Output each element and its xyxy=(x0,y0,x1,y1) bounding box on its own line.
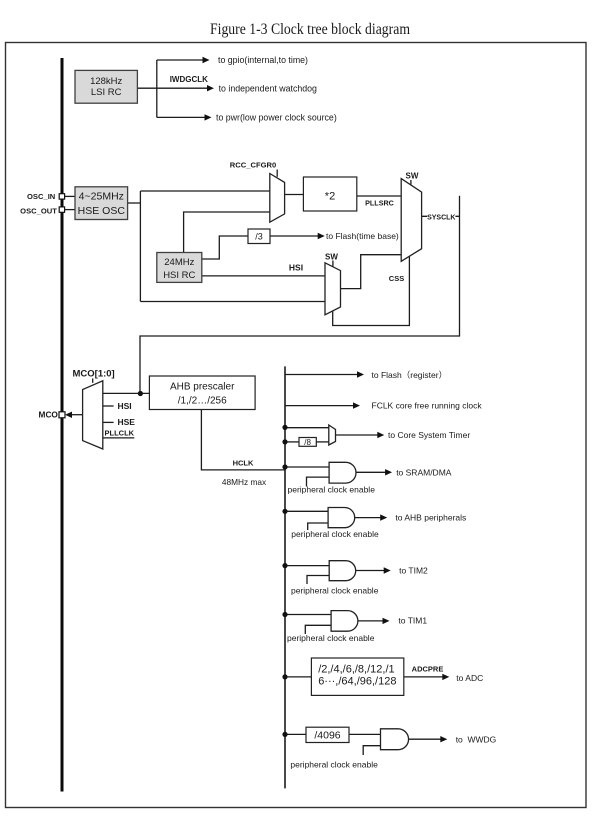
svg-text:6···,/64,/96,/128: 6···,/64,/96,/128 xyxy=(318,676,396,688)
svg-text:SW: SW xyxy=(325,252,338,261)
svg-text:to Flash（register）: to Flash（register） xyxy=(372,370,448,380)
svg-text:24MHz: 24MHz xyxy=(164,257,194,268)
svg-text:ADCPRE: ADCPRE xyxy=(412,665,444,674)
svg-text:to AHB peripherals: to AHB peripherals xyxy=(395,513,466,523)
svg-text:to gpio(internal,to time): to gpio(internal,to time) xyxy=(218,55,308,65)
svg-text:48MHz max: 48MHz max xyxy=(222,477,267,487)
svg-text:HSI: HSI xyxy=(118,401,132,411)
svg-text:CSS: CSS xyxy=(389,274,404,283)
svg-text:RCC_CFGR0: RCC_CFGR0 xyxy=(230,161,276,170)
svg-text:to pwr(low power clock source): to pwr(low power clock source) xyxy=(216,113,337,123)
svg-text:HCLK: HCLK xyxy=(233,459,254,468)
svg-text:PLLSRC: PLLSRC xyxy=(365,199,394,208)
svg-text:HSE: HSE xyxy=(118,417,136,427)
svg-text:to SRAM/DMA: to SRAM/DMA xyxy=(396,467,452,477)
svg-text:peripheral clock enable: peripheral clock enable xyxy=(288,485,376,495)
svg-text:OSC_IN: OSC_IN xyxy=(27,192,55,201)
svg-text:SYSCLK: SYSCLK xyxy=(427,215,455,222)
svg-text:peripheral clock enable: peripheral clock enable xyxy=(290,760,378,770)
svg-text:FCLK core free running clock: FCLK core free running clock xyxy=(372,401,483,411)
svg-text:4~25MHz: 4~25MHz xyxy=(79,191,124,203)
svg-text:/3: /3 xyxy=(255,231,263,241)
svg-text:peripheral clock enable: peripheral clock enable xyxy=(287,633,375,643)
svg-text:to Core System Timer: to Core System Timer xyxy=(388,430,470,440)
svg-text:MCO: MCO xyxy=(39,410,59,420)
svg-text:Figure 1-3 Clock tree block di: Figure 1-3 Clock tree block diagram xyxy=(210,21,410,38)
svg-text:/2,/4,/6,/8,/12,/1: /2,/4,/6,/8,/12,/1 xyxy=(318,664,394,676)
svg-text:HSI: HSI xyxy=(289,262,303,272)
svg-text:LSI RC: LSI RC xyxy=(91,87,122,98)
svg-text:PLLCLK: PLLCLK xyxy=(105,428,135,437)
svg-text:to TIM1: to TIM1 xyxy=(398,616,427,626)
svg-text:/1,/2…/256: /1,/2…/256 xyxy=(178,396,227,407)
svg-text:*2: *2 xyxy=(325,191,335,203)
svg-text:peripheral clock enable: peripheral clock enable xyxy=(291,529,379,539)
svg-text:/4096: /4096 xyxy=(314,730,340,742)
svg-text:/8: /8 xyxy=(304,438,311,447)
svg-text:128kHz: 128kHz xyxy=(90,76,122,87)
svg-text:to ADC: to ADC xyxy=(456,673,483,683)
svg-text:peripheral clock enable: peripheral clock enable xyxy=(291,586,379,596)
svg-text:HSE OSC: HSE OSC xyxy=(78,205,126,217)
svg-text:to Flash(time base): to Flash(time base) xyxy=(326,231,399,241)
svg-text:HSI RC: HSI RC xyxy=(163,270,195,281)
svg-text:SW: SW xyxy=(406,171,419,180)
svg-text:MCO[1:0]: MCO[1:0] xyxy=(73,369,115,380)
svg-text:to independent watchdog: to independent watchdog xyxy=(219,83,317,93)
svg-text:to WWDG: to WWDG xyxy=(456,735,497,745)
svg-text:IWDGCLK: IWDGCLK xyxy=(170,75,208,84)
svg-text:OSC_OUT: OSC_OUT xyxy=(20,207,57,216)
svg-text:to TIM2: to TIM2 xyxy=(399,565,428,575)
svg-text:AHB prescaler: AHB prescaler xyxy=(170,382,235,393)
